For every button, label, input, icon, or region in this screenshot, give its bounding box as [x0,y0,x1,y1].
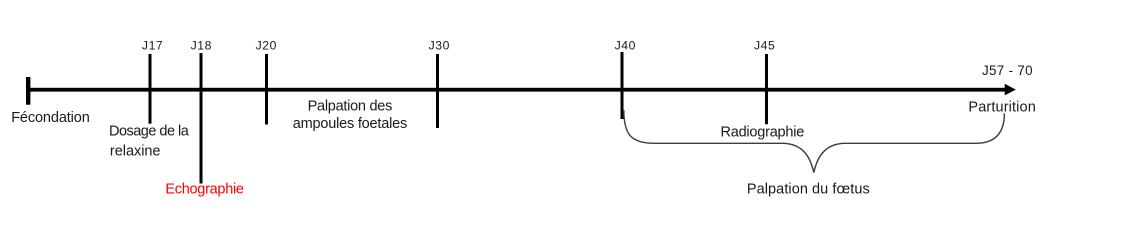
svg-text:Fécondation: Fécondation [11,110,90,126]
svg-text:Palpation du fœtus: Palpation du fœtus [747,181,870,197]
svg-text:Parturition: Parturition [968,99,1035,115]
svg-text:J18: J18 [191,39,212,53]
svg-text:J45: J45 [754,39,775,53]
svg-text:Echographie: Echographie [165,182,244,198]
svg-text:ampoules foetales: ampoules foetales [293,116,408,132]
svg-text:J17: J17 [142,39,163,53]
svg-text:J40: J40 [615,39,636,53]
svg-text:J20: J20 [256,39,277,53]
svg-text:J57 - 70: J57 - 70 [982,63,1033,78]
svg-text:Radiographie: Radiographie [721,125,805,141]
svg-text:Palpation des: Palpation des [308,99,393,115]
svg-text:J30: J30 [429,39,450,53]
svg-text:relaxine: relaxine [110,144,161,160]
svg-text:Dosage de la: Dosage de la [109,124,190,140]
